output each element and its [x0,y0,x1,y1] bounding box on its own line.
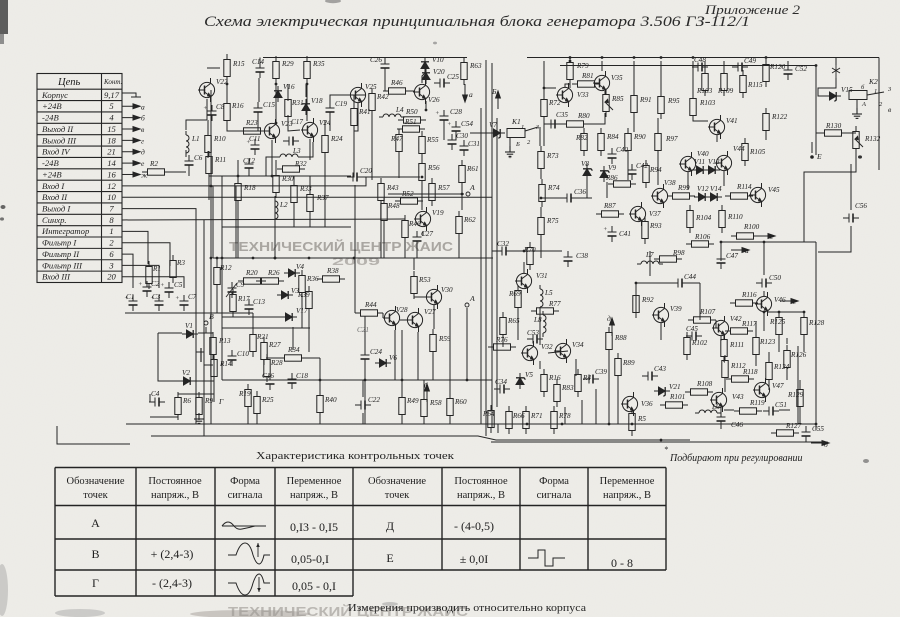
svg-text:V33: V33 [577,91,589,99]
svg-text:+24В: +24В [42,169,62,179]
wire [803,340,805,352]
svg-text:R10: R10 [213,135,226,143]
svg-text:г: г [141,136,144,145]
capacitor C48 [692,63,708,72]
svg-text:R37: R37 [316,194,329,202]
capacitor C15 [254,102,263,118]
wire from Интегратор [122,231,148,264]
svg-text:R84: R84 [606,133,619,141]
wire [687,172,689,190]
diode V1 [182,330,198,338]
wire [517,313,519,340]
wire [400,319,407,321]
svg-text:R122: R122 [771,113,788,121]
resistor R105 [742,138,748,166]
svg-text:R16: R16 [231,102,244,110]
svg-text:0,05-0,I: 0,05-0,I [291,552,329,566]
resistor R42 [369,88,375,116]
svg-text:Переменное: Переменное [600,476,655,487]
svg-text:R21: R21 [256,333,269,341]
wire [577,197,592,199]
wire [237,206,239,258]
svg-text:R4: R4 [582,374,591,382]
svg-text:R118: R118 [742,368,758,376]
svg-text:R130: R130 [825,122,842,130]
resistor R118 [726,376,754,382]
wire [324,158,326,227]
waveform E square [528,550,565,566]
capacitor C44 [672,279,688,288]
svg-text:R117: R117 [741,320,757,328]
svg-text:C14: C14 [252,58,264,66]
transistor V42 [712,316,729,340]
svg-text:C55: C55 [812,425,824,433]
wire [385,90,389,92]
capacitor C17 [283,137,299,146]
resistor R31 [285,94,291,122]
svg-text:V46: V46 [774,296,786,304]
svg-text:1: 1 [109,226,113,236]
resistor R24 [322,130,328,158]
svg-text:C19: C19 [335,100,347,108]
waveform A sine [222,522,266,529]
svg-text:R104: R104 [695,214,712,222]
wire [636,283,672,290]
svg-text:R57: R57 [437,184,450,192]
svg-text:V8: V8 [581,160,589,168]
capacitor C40 [608,148,617,164]
wire [423,380,425,394]
svg-text:3: 3 [108,260,113,270]
wire [765,61,767,63]
svg-text:R98: R98 [672,249,685,257]
wire [786,338,788,344]
contact arrow г [122,138,140,143]
svg-text:R18: R18 [243,184,256,192]
svg-text:R2: R2 [149,160,158,168]
resistor R29 [273,56,279,84]
svg-text:C17: C17 [291,118,303,126]
svg-text:L1: L1 [191,135,200,143]
svg-text:А: А [861,101,866,108]
svg-text:12: 12 [107,181,116,191]
wire [319,418,321,424]
contact arrow а [122,104,140,109]
svg-text:Б: Б [491,87,497,96]
wire [449,308,451,380]
svg-text:L3: L3 [292,147,301,155]
wire [455,137,457,140]
resistor R52 [395,198,423,204]
svg-text:Вход II: Вход II [42,192,68,202]
svg-text:R14: R14 [219,360,232,368]
wire [421,186,423,210]
svg-text:R24: R24 [330,135,343,143]
resistor R99 [667,193,695,199]
svg-text:R125: R125 [769,318,786,326]
diode V8 [583,164,592,180]
wire [213,376,215,402]
transistor V25 [349,83,366,107]
wire [288,115,300,131]
svg-text:R58: R58 [429,399,442,407]
svg-text:R25: R25 [261,396,274,404]
svg-text:Переменное: Переменное [287,476,342,487]
capacitor C39 [583,375,599,384]
top bus right half [527,57,879,59]
svg-text:1: 1 [521,124,524,131]
svg-text:R55: R55 [426,136,439,144]
resistor R92 [633,290,639,318]
contact arrow ж [122,172,140,177]
svg-text:R69: R69 [508,290,521,298]
svg-text:R61: R61 [466,165,479,173]
svg-text:R49: R49 [406,397,419,405]
transistor V-fet [196,345,204,352]
svg-text:V21: V21 [669,383,681,391]
resistor R71 [523,406,529,434]
svg-text:*: * [664,445,668,454]
svg-text:+: + [139,281,143,288]
svg-text:Конт.: Конт. [103,78,122,86]
chassis ground [122,93,136,97]
wire [398,157,400,178]
wire [305,84,307,97]
wire [768,311,804,313]
resistor R75 [538,212,544,240]
capacitor C10 [228,350,237,366]
capacitor C41 [608,226,617,242]
wire [660,61,662,95]
diode V18 [302,99,310,115]
resistor R19 [245,384,251,412]
svg-text:16: 16 [107,169,116,179]
svg-text:R129: R129 [787,391,804,399]
capacitor C47 [717,253,726,269]
inductor L8 [543,311,546,337]
wire [657,156,659,185]
svg-text:C53: C53 [527,329,539,337]
bottom bus right [470,423,690,425]
varicap arrow [226,283,237,297]
wire [443,126,445,140]
resistor R126 [784,345,790,373]
wire [786,373,788,380]
resistor R20 [238,278,266,284]
resistor R112 [722,355,728,383]
transistor V33 [556,83,573,107]
resistor R77 [531,308,559,314]
diode V2 [179,377,195,385]
svg-text:0,05 - 0,I: 0,05 - 0,I [292,579,336,593]
svg-text:C25: C25 [447,73,459,81]
resistor R114 [725,193,753,199]
svg-text:V16: V16 [283,83,295,91]
wire [212,354,214,360]
wire [355,94,366,96]
resistor R100 [731,233,759,239]
resistor R2 [142,169,170,175]
resistor R12 [214,262,220,290]
control point table [55,468,666,597]
svg-text:напряж., В: напряж., В [457,490,505,501]
wire [237,160,239,178]
svg-text:г: г [793,297,796,306]
wire [404,243,406,258]
svg-text:Корпус: Корпус [41,90,68,100]
svg-text:R51: R51 [404,118,417,126]
svg-text:C35: C35 [556,111,568,119]
svg-text:R124: R124 [773,363,790,371]
wire [309,217,311,227]
wire from Фильтр III [122,265,159,288]
svg-text:V9: V9 [608,164,616,172]
wire [724,409,734,411]
wire [206,99,208,120]
diode V12 [694,193,710,201]
svg-text:V14: V14 [710,185,722,193]
svg-text:R74: R74 [547,184,560,192]
wire [216,290,218,313]
svg-text:R46: R46 [408,220,421,228]
resistor R17 [230,289,236,317]
svg-text:8: 8 [109,215,114,225]
wire [221,176,223,380]
resistor R122 [763,108,769,136]
resistor R116 [730,300,758,306]
svg-text:V6: V6 [389,354,397,362]
resistor R49 [399,392,405,420]
svg-text:C47: C47 [726,252,738,260]
wire [799,412,801,424]
svg-text:R1: R1 [152,265,161,273]
wire [564,407,566,424]
wire [617,381,619,424]
diode V7 [489,129,505,138]
wire [207,67,220,69]
wire [856,100,858,108]
resistor R3 [170,255,176,283]
wire [763,312,765,331]
resistor R94 [643,160,649,188]
contact arrow д [122,149,140,154]
resistor R108 [685,389,713,395]
svg-text:R42: R42 [376,93,389,101]
capacitor C19 [326,102,335,118]
wire [308,314,310,352]
svg-text:R13: R13 [218,337,231,345]
resistor R30 [273,170,279,198]
resistor R89 [615,353,621,381]
transistor V28 [383,306,400,330]
wire [380,206,382,258]
resistor R39 [306,286,312,314]
svg-text:Выход III: Выход III [42,135,77,145]
transistor V40 [679,152,696,176]
svg-text:R110: R110 [727,213,743,221]
wire [433,305,435,329]
svg-text:V34: V34 [572,341,584,349]
resistor R124 [766,357,772,385]
svg-text:R79: R79 [576,62,589,70]
wire [432,357,434,380]
wire [414,297,426,298]
svg-text:15: 15 [107,124,116,134]
capacitor C27 [413,231,422,247]
svg-text:R103: R103 [699,99,716,107]
inductor L3 [276,154,302,157]
svg-text:а: а [141,102,145,111]
resistor R37 [307,189,313,217]
wire from Вход I [122,177,366,186]
wire [216,258,218,262]
waveform B sine+arrow [228,543,270,564]
wire [716,135,718,142]
wire [364,365,366,380]
svg-text:R44: R44 [364,301,377,309]
resistor R59 [430,329,436,357]
resistor R111 [721,334,727,362]
svg-text:Подбирают при регулировании: Подбирают при регулировании [669,453,803,464]
inductor L2 [275,197,278,223]
svg-text:V30: V30 [441,286,453,294]
resistor R81 [572,81,600,87]
wire [497,424,499,433]
svg-text:точек: точек [83,490,108,501]
wire [416,247,418,258]
svg-text:C39: C39 [595,368,607,376]
resistor R44 [355,310,383,316]
svg-text:R94: R94 [649,166,662,174]
svg-text:V31: V31 [536,272,548,280]
svg-text:R43: R43 [386,184,399,192]
C56 upper wire [850,164,852,210]
svg-text:Постоянное: Постоянное [148,476,202,487]
resistor R55 [419,131,425,159]
node А [465,303,469,307]
wire [627,156,629,180]
right vertical bus [815,242,817,430]
svg-text:R114: R114 [736,183,752,191]
svg-text:Интегратор: Интегратор [41,226,90,236]
resistor R78 [551,406,557,434]
svg-text:V12: V12 [697,185,709,193]
wire [178,393,214,395]
svg-text:C2: C2 [151,280,160,288]
wire [177,414,179,417]
svg-text:18: 18 [107,135,116,145]
svg-text:R29: R29 [281,60,294,68]
resistor R76 [488,344,516,350]
wire [539,127,541,146]
svg-text:V35: V35 [611,74,623,82]
svg-text:Выход II: Выход II [42,124,74,134]
wire [275,84,277,123]
resistor R98 [654,256,682,262]
wire [431,201,433,206]
svg-text:R48: R48 [387,202,400,210]
capacitor C25 [434,79,450,88]
svg-text:R77: R77 [548,300,561,308]
svg-text:R90: R90 [633,133,646,141]
capacitor C8 [208,105,217,121]
resistor R79 [567,57,573,85]
resistor R73 [538,146,544,174]
svg-text:V47: V47 [772,382,784,390]
capacitor C13 [245,299,254,315]
capacitor C9 [228,282,237,298]
wire [756,241,816,243]
svg-text:V41: V41 [726,117,738,125]
svg-text:R128: R128 [808,319,825,327]
wire [581,400,583,424]
resistor R18 [235,178,241,206]
svg-text:C31: C31 [468,140,480,148]
svg-text:Форма: Форма [539,476,569,487]
svg-text:+: + [436,110,440,117]
wire [247,384,249,389]
wire [542,197,561,199]
resistor R56 [419,158,425,186]
svg-text:L7: L7 [645,251,654,259]
wire [755,322,757,332]
capacitor C14 [256,62,265,78]
wire [720,424,722,429]
wire [384,58,386,61]
wire [222,316,281,318]
svg-text:L5: L5 [544,289,553,297]
wire [502,340,504,347]
svg-text:C26: C26 [370,56,382,64]
wire [539,311,541,345]
resistor R23 [238,128,266,134]
svg-text:V32: V32 [541,343,553,351]
wire [604,91,606,95]
capacitor C6 [185,155,194,171]
wire [423,422,425,424]
resistor R120 [763,59,769,87]
svg-text:R11: R11 [214,156,226,164]
svg-text:R80: R80 [577,112,590,120]
svg-text:Вход III: Вход III [42,272,71,282]
capacitor C35 [545,120,561,129]
svg-text:V43: V43 [732,393,744,401]
wire [586,180,588,198]
resistor R38 [317,276,345,282]
wire [787,61,789,64]
capacitor C30 [448,134,457,150]
wire [306,58,308,62]
svg-text:C1: C1 [126,293,134,301]
svg-text:R92: R92 [641,296,654,304]
wire [188,171,190,176]
wire [207,151,209,158]
resistor R9 [196,392,202,420]
svg-text:R72: R72 [548,99,561,107]
capacitor C51 [763,407,779,416]
capacitor C20 [347,173,363,182]
svg-text:V25: V25 [365,83,377,91]
wire [512,250,562,252]
top bus right half 2 [560,65,816,67]
wire [309,176,311,189]
svg-text:V40: V40 [697,150,709,158]
wire [149,394,151,402]
wire [755,360,757,366]
svg-text:R28: R28 [270,359,283,367]
resistor R51 [397,126,425,132]
resistor R64 [488,405,494,433]
